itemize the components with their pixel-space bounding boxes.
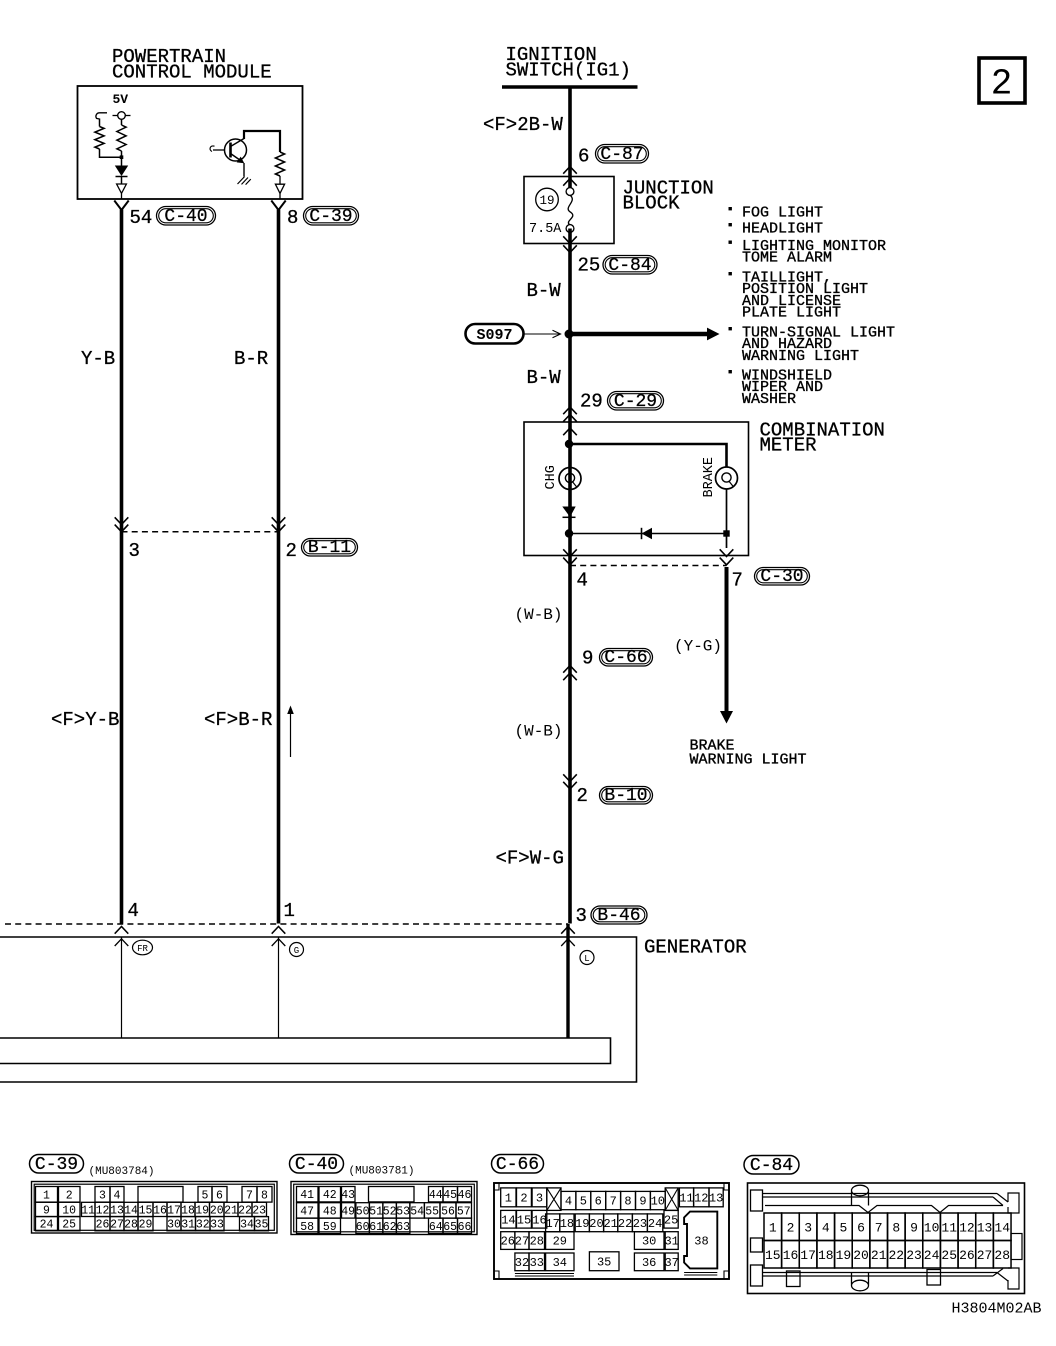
svg-text:<F>Y-B: <F>Y-B bbox=[51, 709, 119, 731]
svg-text:4: 4 bbox=[128, 900, 139, 922]
diode D3 on cross link (pointing left) bbox=[642, 528, 653, 539]
svg-text:15: 15 bbox=[139, 1204, 153, 1217]
wire bbox=[121, 151, 123, 157]
svg-text:66: 66 bbox=[458, 1221, 472, 1234]
svg-text:C-66: C-66 bbox=[496, 1155, 539, 1175]
svg-text:61: 61 bbox=[369, 1221, 383, 1234]
svg-text:7: 7 bbox=[246, 1189, 253, 1202]
connector crossing chevrons (meter exit left) bbox=[563, 549, 577, 556]
svg-text:16: 16 bbox=[153, 1204, 167, 1217]
connector crossing chevrons (junction block exit) bbox=[563, 236, 577, 243]
svg-text:13: 13 bbox=[110, 1204, 124, 1217]
pin 54 connector Y symbol bbox=[114, 201, 128, 211]
wire bbox=[99, 119, 101, 127]
wire to brake warning light (arrow) bbox=[725, 567, 729, 711]
svg-text:19: 19 bbox=[836, 1248, 852, 1263]
svg-text:<F>B-R: <F>B-R bbox=[204, 709, 272, 731]
svg-text:21: 21 bbox=[224, 1204, 238, 1217]
svg-text:H3804M02AB: H3804M02AB bbox=[952, 1301, 1042, 1318]
connector crossing chevrons (generator FR) bbox=[115, 927, 129, 934]
svg-text:3: 3 bbox=[99, 1189, 106, 1202]
svg-text:27: 27 bbox=[110, 1219, 124, 1232]
svg-text:2: 2 bbox=[991, 64, 1013, 105]
svg-text:27: 27 bbox=[515, 1235, 529, 1249]
svg-text:12: 12 bbox=[959, 1221, 975, 1236]
svg-text:9: 9 bbox=[582, 648, 593, 670]
node S097 junction dot bbox=[565, 330, 574, 339]
connector C-39 pinout body bbox=[32, 1182, 278, 1234]
svg-text:C-29: C-29 bbox=[614, 392, 657, 412]
svg-text:9: 9 bbox=[639, 1195, 646, 1209]
svg-text:7: 7 bbox=[610, 1195, 617, 1209]
svg-text:5: 5 bbox=[580, 1195, 587, 1209]
svg-text:20: 20 bbox=[210, 1204, 224, 1217]
ignition switch bus bar bbox=[502, 85, 638, 88]
svg-text:24: 24 bbox=[924, 1248, 940, 1263]
svg-text:19: 19 bbox=[195, 1204, 209, 1217]
connector C-39 row 3 bbox=[36, 1217, 58, 1231]
svg-text:4: 4 bbox=[114, 1189, 121, 1202]
svg-text:14: 14 bbox=[124, 1204, 138, 1217]
connector crossing chevrons (right wire, B-11) bbox=[272, 517, 286, 524]
wire FR inside generator bbox=[121, 937, 123, 1038]
svg-text:34: 34 bbox=[240, 1219, 254, 1232]
connector C-66 row 1 middle bbox=[561, 1191, 576, 1209]
svg-text:5: 5 bbox=[839, 1221, 847, 1236]
svg-text:20: 20 bbox=[589, 1217, 603, 1231]
svg-text:8: 8 bbox=[892, 1221, 900, 1236]
svg-text:13: 13 bbox=[977, 1221, 993, 1236]
svg-text:2: 2 bbox=[787, 1221, 795, 1236]
svg-text:33: 33 bbox=[210, 1219, 224, 1232]
svg-text:WARNING LIGHT: WARNING LIGHT bbox=[690, 752, 807, 769]
svg-text:WARNING LIGHT: WARNING LIGHT bbox=[742, 348, 859, 365]
connector C-29 ref bbox=[608, 392, 664, 411]
svg-text:4: 4 bbox=[565, 1195, 572, 1209]
arrow from S097 to node bbox=[525, 333, 560, 335]
svg-text:8: 8 bbox=[624, 1195, 631, 1209]
junction bbox=[120, 155, 124, 159]
svg-text:11: 11 bbox=[679, 1191, 693, 1205]
svg-text:3: 3 bbox=[576, 905, 587, 927]
dashed connector line B-11 bbox=[122, 531, 279, 533]
svg-text:7: 7 bbox=[732, 570, 743, 592]
svg-text:C-40: C-40 bbox=[295, 1155, 338, 1175]
current-direction arrow bbox=[290, 712, 292, 757]
svg-text:3: 3 bbox=[536, 1191, 543, 1205]
pin 8 connector Y symbol bbox=[271, 201, 285, 211]
svg-text:PLATE LIGHT: PLATE LIGHT bbox=[742, 305, 841, 322]
svg-text:14: 14 bbox=[994, 1221, 1010, 1236]
svg-text:62: 62 bbox=[383, 1221, 397, 1234]
svg-text:44: 44 bbox=[429, 1189, 443, 1202]
svg-text:9: 9 bbox=[910, 1221, 918, 1236]
svg-text:25: 25 bbox=[62, 1219, 76, 1232]
svg-text:47: 47 bbox=[300, 1205, 314, 1218]
connector C-84 label bbox=[744, 1156, 799, 1175]
connector C-84 pin grid row 2 bbox=[764, 1241, 782, 1269]
svg-text:B-46: B-46 bbox=[597, 906, 640, 926]
resistor R2 (pull-up to 5V) bbox=[117, 125, 126, 151]
svg-text:12: 12 bbox=[96, 1204, 110, 1217]
connector C-66 bottom shading bbox=[515, 1273, 717, 1277]
ground (emitter) bbox=[243, 163, 245, 177]
svg-text:63: 63 bbox=[396, 1221, 410, 1234]
svg-text:6: 6 bbox=[578, 146, 589, 168]
svg-text:2: 2 bbox=[520, 1191, 527, 1205]
dashed connector line (generator) bbox=[5, 923, 568, 925]
diode D1 (zener, cathode up) bbox=[115, 166, 128, 177]
svg-text:18: 18 bbox=[818, 1248, 834, 1263]
svg-text:21: 21 bbox=[603, 1217, 617, 1231]
svg-text:10: 10 bbox=[651, 1195, 665, 1209]
svg-text:23: 23 bbox=[252, 1204, 266, 1217]
svg-text:25: 25 bbox=[941, 1248, 957, 1263]
diode D2 on CHG branch bbox=[562, 507, 575, 518]
svg-text:3: 3 bbox=[129, 540, 140, 562]
svg-text:27: 27 bbox=[977, 1248, 993, 1263]
svg-text:56: 56 bbox=[441, 1205, 455, 1218]
svg-text:55: 55 bbox=[425, 1205, 439, 1218]
connector C-87 ref bbox=[596, 145, 649, 164]
svg-text:16: 16 bbox=[783, 1248, 799, 1263]
lamp BRAKE bbox=[716, 467, 738, 489]
svg-text:18: 18 bbox=[560, 1217, 574, 1231]
svg-text:26: 26 bbox=[959, 1248, 975, 1263]
svg-text:15: 15 bbox=[765, 1248, 781, 1263]
svg-text:10: 10 bbox=[924, 1221, 940, 1236]
connector C-39 row 1 bbox=[36, 1187, 58, 1203]
wire bbox=[100, 149, 122, 157]
junction square on brake branch bbox=[723, 530, 729, 536]
svg-text:C-84: C-84 bbox=[750, 1156, 793, 1176]
svg-text:41: 41 bbox=[300, 1189, 314, 1202]
connector C-66 keyway X left bbox=[547, 1188, 561, 1211]
svg-text:FR: FR bbox=[137, 944, 148, 954]
svg-text:22: 22 bbox=[238, 1204, 252, 1217]
svg-text:5: 5 bbox=[202, 1189, 209, 1202]
connector C-39 label bbox=[30, 1155, 84, 1174]
svg-text:4: 4 bbox=[577, 570, 588, 592]
svg-text:GENERATOR: GENERATOR bbox=[644, 937, 747, 959]
svg-text:<F>2B-W: <F>2B-W bbox=[483, 114, 563, 136]
wire: collector to resistor R3 bbox=[244, 131, 280, 152]
svg-text:C-39: C-39 bbox=[35, 1155, 78, 1175]
svg-text:B-11: B-11 bbox=[308, 538, 351, 558]
sheet number box 2 bbox=[979, 58, 1025, 103]
wire L inside generator bbox=[566, 924, 569, 1038]
svg-text:36: 36 bbox=[642, 1256, 656, 1270]
svg-text:BRAKE: BRAKE bbox=[702, 457, 717, 498]
connector B-46 ref bbox=[591, 906, 647, 924]
svg-text:64: 64 bbox=[429, 1221, 443, 1234]
svg-text:WASHER: WASHER bbox=[742, 391, 796, 408]
connector crossing chevrons (C-66) bbox=[563, 666, 577, 673]
svg-text:METER: METER bbox=[760, 435, 817, 457]
terminal L bbox=[580, 951, 594, 965]
svg-text:21: 21 bbox=[871, 1248, 887, 1263]
svg-text:(MU803784): (MU803784) bbox=[89, 1166, 155, 1178]
svg-text:65: 65 bbox=[443, 1221, 457, 1234]
svg-text:31: 31 bbox=[181, 1219, 195, 1232]
svg-text:C-66: C-66 bbox=[604, 648, 647, 668]
wire bbox=[121, 177, 123, 185]
svg-text:C-87: C-87 bbox=[600, 145, 643, 165]
svg-text:6: 6 bbox=[216, 1189, 223, 1202]
svg-text:G: G bbox=[294, 946, 299, 956]
svg-text:2: 2 bbox=[66, 1189, 73, 1202]
svg-text:FOG LIGHT: FOG LIGHT bbox=[742, 205, 823, 222]
svg-text:34: 34 bbox=[553, 1256, 567, 1270]
combination meter box bbox=[524, 422, 749, 556]
svg-text:12: 12 bbox=[694, 1191, 708, 1205]
svg-text:20: 20 bbox=[853, 1248, 869, 1263]
svg-text:37: 37 bbox=[664, 1256, 678, 1270]
svg-text:C-40: C-40 bbox=[164, 207, 207, 227]
connector crossing chevrons (junction block entry) bbox=[563, 167, 577, 174]
svg-text:C-84: C-84 bbox=[608, 256, 651, 276]
svg-text:HEADLIGHT: HEADLIGHT bbox=[742, 221, 823, 238]
svg-text:Y-B: Y-B bbox=[81, 348, 115, 370]
svg-text:29: 29 bbox=[139, 1219, 153, 1232]
svg-text:50: 50 bbox=[356, 1205, 370, 1218]
dashed connector line C-30 bbox=[570, 565, 727, 567]
svg-text:B-W: B-W bbox=[527, 280, 562, 302]
wire B-R (PCM pin 8 down) bbox=[277, 210, 281, 924]
resistor R1 bbox=[95, 127, 104, 150]
svg-text:1: 1 bbox=[505, 1191, 512, 1205]
connector C-66 cavity 38 bbox=[684, 1212, 717, 1269]
svg-text:(W-B): (W-B) bbox=[515, 723, 563, 741]
svg-text:B-R: B-R bbox=[234, 348, 268, 370]
wire to BRAKE lamp branch bbox=[570, 444, 727, 468]
svg-text:29: 29 bbox=[553, 1235, 567, 1249]
svg-text:59: 59 bbox=[323, 1221, 337, 1234]
svg-text:1: 1 bbox=[43, 1189, 50, 1202]
wire 2B-W from ignition switch bbox=[568, 87, 572, 192]
junction block box bbox=[524, 177, 614, 244]
svg-text:2: 2 bbox=[577, 785, 588, 807]
svg-text:7.5A: 7.5A bbox=[529, 222, 562, 237]
svg-text:1: 1 bbox=[769, 1221, 777, 1236]
connector C-84 ref bbox=[603, 256, 657, 275]
svg-text:L: L bbox=[584, 954, 589, 964]
wire: cross link bbox=[570, 533, 727, 535]
svg-text:3: 3 bbox=[804, 1221, 812, 1236]
connector B-11 ref bbox=[302, 539, 358, 557]
connector C-40 row 3 bbox=[297, 1218, 319, 1233]
wire: thick feed arrow to lighting loads bbox=[570, 332, 707, 337]
svg-text:C-30: C-30 bbox=[760, 567, 803, 587]
svg-text:B-W: B-W bbox=[527, 367, 562, 389]
svg-text:51: 51 bbox=[369, 1205, 383, 1218]
svg-text:58: 58 bbox=[300, 1221, 314, 1234]
svg-text:22: 22 bbox=[618, 1217, 632, 1231]
svg-text:60: 60 bbox=[356, 1221, 370, 1234]
fuse number 19 bbox=[536, 188, 559, 211]
connector crossing chevrons (B-10) bbox=[563, 774, 577, 781]
svg-text:23: 23 bbox=[633, 1217, 647, 1231]
svg-text:32: 32 bbox=[515, 1256, 529, 1270]
terminal G bbox=[290, 943, 304, 957]
connector crossing chevrons (meter exit right) bbox=[720, 549, 734, 556]
svg-text:6: 6 bbox=[595, 1195, 602, 1209]
svg-text:13: 13 bbox=[709, 1191, 723, 1205]
svg-text:29: 29 bbox=[580, 391, 603, 413]
connector C-30 ref bbox=[755, 568, 810, 586]
svg-text:25: 25 bbox=[664, 1213, 678, 1227]
connector C-66 ref bbox=[600, 649, 653, 667]
svg-text:52: 52 bbox=[383, 1205, 397, 1218]
svg-text:(W-B): (W-B) bbox=[515, 606, 563, 624]
connector C-84 left tabs bbox=[751, 1190, 763, 1211]
connector C-84 pin grid row 1 bbox=[764, 1213, 782, 1241]
connector crossing chevrons (generator L) bbox=[561, 927, 575, 934]
svg-text:30: 30 bbox=[167, 1219, 181, 1232]
svg-text:15: 15 bbox=[517, 1213, 531, 1227]
pin arrow (open triangle) pin 8 bbox=[279, 176, 281, 184]
generator box bbox=[0, 937, 637, 1082]
svg-text:10: 10 bbox=[62, 1204, 76, 1217]
svg-text:2: 2 bbox=[286, 540, 297, 562]
load list bullets and labels bbox=[729, 207, 732, 210]
svg-text:19: 19 bbox=[575, 1217, 589, 1231]
connector C-66 row 1 bbox=[501, 1188, 516, 1207]
svg-text:18: 18 bbox=[181, 1204, 195, 1217]
wire brake branch down bbox=[726, 489, 728, 548]
terminal FR bbox=[133, 940, 153, 955]
svg-text:42: 42 bbox=[323, 1189, 337, 1202]
wire G inside generator bbox=[278, 937, 280, 1038]
svg-text:54: 54 bbox=[130, 207, 153, 229]
svg-text:31: 31 bbox=[664, 1235, 678, 1249]
svg-text:6: 6 bbox=[857, 1221, 865, 1236]
svg-text:7: 7 bbox=[875, 1221, 883, 1236]
svg-text:(MU803781): (MU803781) bbox=[349, 1166, 415, 1178]
svg-text:SWITCH(IG1): SWITCH(IG1) bbox=[506, 60, 631, 82]
svg-text:5V: 5V bbox=[113, 92, 129, 107]
svg-text:45: 45 bbox=[443, 1189, 457, 1202]
svg-text:14: 14 bbox=[501, 1213, 515, 1227]
svg-text:(Y-G): (Y-G) bbox=[674, 638, 722, 656]
svg-text:24: 24 bbox=[40, 1219, 54, 1232]
svg-text:28: 28 bbox=[124, 1219, 138, 1232]
svg-text:28: 28 bbox=[994, 1248, 1010, 1263]
svg-text:BLOCK: BLOCK bbox=[623, 193, 681, 215]
svg-text:22: 22 bbox=[888, 1248, 904, 1263]
wire B-W main run bbox=[568, 229, 572, 924]
lamp CHG bbox=[559, 468, 581, 490]
connector C-66 row 1 right bbox=[679, 1188, 693, 1207]
connector C-84 right hooks bbox=[1008, 1193, 1019, 1213]
svg-text:S097: S097 bbox=[476, 327, 512, 344]
node: input pigtail bbox=[96, 113, 107, 119]
svg-text:57: 57 bbox=[457, 1205, 471, 1218]
svg-text:B-10: B-10 bbox=[604, 786, 647, 806]
connector C-84 bottom tabs bbox=[787, 1271, 801, 1287]
connector C-40 ref bbox=[157, 207, 216, 226]
connector C-84 pinout body bbox=[748, 1183, 1025, 1294]
svg-text:8: 8 bbox=[287, 207, 298, 229]
svg-text:32: 32 bbox=[196, 1219, 210, 1232]
pin arrow (open triangle) pin 54 bbox=[117, 184, 127, 193]
svg-text:1: 1 bbox=[284, 900, 295, 922]
svg-text:9: 9 bbox=[43, 1204, 50, 1217]
svg-text:<F>W-G: <F>W-G bbox=[496, 848, 564, 870]
svg-text:35: 35 bbox=[255, 1219, 269, 1232]
svg-text:CHG: CHG bbox=[544, 465, 559, 489]
connector C-84 top rail bbox=[763, 1194, 1009, 1206]
resistor R3 bbox=[275, 152, 284, 176]
svg-text:48: 48 bbox=[323, 1205, 337, 1218]
svg-text:17: 17 bbox=[167, 1204, 181, 1217]
node: junction dot bottom bbox=[565, 529, 573, 537]
connector C-40 label bbox=[290, 1155, 344, 1174]
connector C-40 row 2 bbox=[297, 1203, 319, 1218]
connector C-66 row 3 bbox=[501, 1232, 515, 1250]
svg-text:54: 54 bbox=[410, 1205, 424, 1218]
connector crossing chevrons (left wire, B-11) bbox=[115, 517, 129, 524]
svg-text:C-39: C-39 bbox=[309, 207, 352, 227]
svg-text:4: 4 bbox=[822, 1221, 830, 1236]
svg-text:49: 49 bbox=[341, 1205, 355, 1218]
svg-text:33: 33 bbox=[530, 1256, 544, 1270]
svg-text:35: 35 bbox=[597, 1255, 611, 1269]
svg-text:26: 26 bbox=[501, 1235, 515, 1249]
svg-text:25: 25 bbox=[578, 255, 601, 277]
connector C-39 row 2 bbox=[36, 1202, 58, 1216]
svg-text:8: 8 bbox=[261, 1189, 268, 1202]
fuse F19 7.5A bbox=[566, 188, 574, 196]
svg-text:53: 53 bbox=[396, 1205, 410, 1218]
connector crossing chevrons (generator G) bbox=[272, 927, 286, 934]
svg-text:46: 46 bbox=[458, 1189, 472, 1202]
svg-text:28: 28 bbox=[530, 1235, 544, 1249]
svg-text:17: 17 bbox=[545, 1217, 559, 1231]
wire bbox=[121, 119, 123, 125]
svg-text:11: 11 bbox=[81, 1204, 95, 1217]
connector B-10 ref bbox=[600, 787, 653, 805]
connector crossing chevrons (combination meter entry C-29) bbox=[563, 407, 577, 414]
transistor Q1 bbox=[210, 146, 214, 152]
svg-text:26: 26 bbox=[96, 1219, 110, 1232]
connector C-66 pinout body bbox=[494, 1183, 729, 1279]
node: junction dot top bbox=[565, 440, 573, 448]
connector C-84 bottom rail bbox=[763, 1269, 1009, 1282]
connector C-66 keyway X right bbox=[665, 1188, 678, 1211]
svg-text:23: 23 bbox=[906, 1248, 922, 1263]
svg-text:TOME ALARM: TOME ALARM bbox=[742, 250, 832, 267]
connector C-40 row 1 bbox=[297, 1187, 319, 1202]
connector C-66 label bbox=[492, 1155, 544, 1174]
connector C-66 row 4 bbox=[515, 1253, 529, 1271]
connector C-40 pinout body bbox=[291, 1182, 477, 1235]
connector C-84 top center tab bbox=[852, 1185, 869, 1196]
generator internal bus bar bbox=[0, 1038, 611, 1064]
op-amp U1: powertrain control module box bbox=[78, 86, 303, 199]
svg-text:43: 43 bbox=[341, 1189, 355, 1202]
svg-text:24: 24 bbox=[648, 1217, 662, 1231]
svg-text:38: 38 bbox=[694, 1235, 708, 1249]
connector C-66 row 2 bbox=[501, 1210, 516, 1228]
svg-text:19: 19 bbox=[539, 194, 554, 208]
splice S097 bbox=[466, 324, 524, 344]
connector C-39 ref bbox=[304, 207, 359, 226]
wire Y-B (PCM pin 54 down) bbox=[120, 210, 124, 924]
svg-text:CONTROL MODULE: CONTROL MODULE bbox=[112, 62, 272, 84]
svg-text:30: 30 bbox=[642, 1235, 656, 1249]
svg-text:11: 11 bbox=[941, 1221, 957, 1236]
